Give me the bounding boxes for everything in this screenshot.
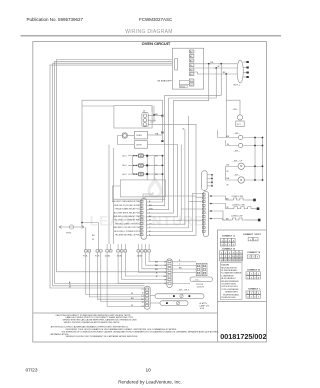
svg-text:DL: DL: [143, 110, 146, 112]
svg-text:W: W: [92, 239, 94, 241]
svg-text:10: 10: [146, 367, 152, 373]
svg-text:12: 12: [224, 260, 227, 262]
svg-text:BB: BB: [155, 265, 158, 267]
svg-text:VERIFIEZ LE BON FONCTIONNEMENT: VERIFIEZ LE BON FONCTIONNEMENT DE L'APPA…: [66, 335, 139, 338]
svg-text:—/W/— BK 4: —/W/— BK 4: [177, 289, 190, 291]
svg-text:P1 A: P1 A: [83, 254, 88, 257]
svg-text:GREEN/VERT: GREEN/VERT: [225, 292, 239, 294]
svg-text:BK-BLACK/NOIR: BK-BLACK/NOIR: [221, 266, 237, 269]
svg-text:R-RED/ROUGE: R-RED/ROUGE: [221, 297, 236, 299]
svg-text:BR-BROWN/BRUN: BR-BROWN/BRUN: [221, 281, 239, 283]
svg-text:B T: B T: [237, 124, 241, 126]
svg-text:WIRING DIAGRAM: WIRING DIAGRAM: [125, 29, 173, 35]
svg-text:LES ERREURS DE CONNEXION PEUVE: LES ERREURS DE CONNEXION PEUVENT CAUSER …: [61, 330, 219, 333]
svg-text:120/12V: 120/12V: [197, 286, 205, 288]
svg-text:TRTZ: TRTZ: [66, 233, 72, 235]
svg-text:—/W/—: —/W/—: [233, 133, 240, 135]
svg-text:10084: 10084: [105, 255, 111, 257]
svg-text:W-WHITE/BLANC: W-WHITE/BLANC: [221, 269, 238, 272]
svg-text:BRN-RED CONV FAN MT P5E: BRN-RED CONV FAN MT P5E: [113, 215, 140, 218]
svg-text:L3: L3: [141, 296, 143, 298]
svg-text:W: W: [142, 302, 144, 304]
svg-text:BL-BLUE/BLEU: BL-BLUE/BLEU: [221, 278, 236, 280]
svg-text:CONNECT 1/2/3 P: CONNECT 1/2/3 P: [243, 234, 262, 236]
svg-text:GRN-YEL DOOR LATCH P5B: GRN-YEL DOOR LATCH P5B: [114, 204, 140, 207]
svg-text:□□/W/□□ 2W: □□/W/□□ 2W: [232, 195, 243, 198]
svg-text:BL 4: BL 4: [123, 165, 128, 167]
svg-text:L3: L3: [164, 283, 166, 285]
svg-text:00181725/002: 00181725/002: [220, 332, 266, 341]
svg-text:13: 13: [228, 260, 231, 262]
svg-text:—/W/—: —/W/—: [232, 109, 239, 111]
svg-text:V-VIOLET/VIOLET: V-VIOLET/VIOLET: [221, 286, 238, 288]
svg-text:M: M: [240, 179, 242, 182]
svg-text:□□/W/□□ 2W: □□/W/□□ 2W: [231, 215, 242, 218]
svg-text:RED-WHT OVEN SENSOR P5A: RED-WHT OVEN SENSOR P5A: [112, 200, 140, 203]
svg-text:CONNECT B: CONNECT B: [247, 269, 260, 271]
svg-text:B: B: [156, 276, 158, 278]
svg-text:CONNECT B: CONNECT B: [222, 249, 235, 251]
svg-text:MOT △: MOT △: [234, 84, 241, 87]
svg-text:LEADVENTURE: LEADVENTURE: [90, 214, 204, 229]
svg-text:W: W: [227, 144, 229, 146]
svg-text:10 W: 10 W: [200, 308, 205, 310]
svg-text:BL 4: BL 4: [123, 156, 128, 158]
svg-text:10085: 10085: [117, 255, 123, 257]
svg-text:WHT-RED LOCK MOTOR P5H: WHT-RED LOCK MOTOR P5H: [113, 227, 140, 229]
svg-text:GY-GREY/GRIS: GY-GREY/GRIS: [221, 284, 236, 286]
svg-text:L3: L3: [141, 289, 143, 291]
svg-text:BK BRACKET: BK BRACKET: [158, 79, 172, 82]
svg-text:W-WHITE/BLANC: W-WHITE/BLANC: [223, 293, 240, 296]
svg-text:—/W/—: —/W/—: [233, 174, 240, 176]
svg-text:YEL-BRN NEUTRAL LN P5K: YEL-BRN NEUTRAL LN P5K: [115, 234, 140, 237]
svg-text:CONNECT L: CONNECT L: [248, 289, 261, 291]
svg-text:VERIFY PROPER OPERATION AFTER: VERIFY PROPER OPERATION AFTER SERVICING …: [64, 321, 121, 324]
svg-text:W: W: [218, 66, 220, 68]
svg-text:15: 15: [236, 260, 239, 262]
svg-text:L3: L3: [141, 306, 143, 308]
svg-text:COLOR:: COLOR:: [221, 265, 229, 267]
svg-text:OVEN CIRCUIT: OVEN CIRCUIT: [142, 41, 171, 46]
svg-text:BL 4: BL 4: [123, 174, 128, 176]
svg-text:W: W: [164, 265, 166, 267]
svg-text:W: W: [142, 292, 144, 294]
svg-text:CONNECT B: CONNECT B: [247, 252, 260, 254]
svg-text:BB: BB: [155, 269, 158, 271]
svg-text:W: W: [227, 207, 229, 209]
svg-text:BK: BK: [92, 235, 95, 237]
svg-text:GRY-BLU OVEN LIGHT P5G: GRY-BLU OVEN LIGHT P5G: [115, 223, 140, 225]
svg-text:VIO-GRN COOL FAN MT P5F: VIO-GRN COOL FAN MT P5F: [114, 219, 140, 222]
svg-text:CONNECT A: CONNECT A: [222, 234, 235, 237]
svg-text:W: W: [164, 279, 166, 281]
svg-text:T-TAN/BEIGE: T-TAN/BEIGE: [221, 274, 234, 277]
svg-text:W: W: [69, 287, 71, 289]
svg-text:—□□□—: —□□□—: [193, 279, 201, 282]
svg-text:W: W: [131, 293, 133, 295]
svg-text:EOC1: EOC1: [180, 87, 185, 89]
svg-text:—/W/—: —/W/—: [233, 151, 240, 153]
svg-text:□□/W/□□□ 3W: □□/W/□□□ 3W: [232, 204, 245, 207]
svg-text:BB: BB: [155, 262, 158, 264]
svg-text:A: A: [183, 128, 185, 131]
svg-text:—/W/— CF: —/W/— CF: [232, 161, 243, 163]
svg-text:FCWM3027ASC: FCWM3027ASC: [139, 17, 173, 22]
svg-text:BK: BK: [131, 298, 134, 300]
svg-text:Rendered by LeadVenture, Inc.: Rendered by LeadVenture, Inc.: [118, 379, 182, 384]
svg-text:W: W: [227, 185, 229, 187]
svg-text:W: W: [131, 305, 133, 307]
svg-text:16: 16: [240, 260, 243, 262]
svg-text:ORN-BLK BAKE RELAY P5C: ORN-BLK BAKE RELAY P5C: [115, 208, 140, 211]
svg-text:B: B: [156, 272, 158, 274]
svg-text:OVEN: OVEN: [136, 135, 142, 137]
svg-text:LIGHT: LIGHT: [136, 145, 143, 147]
svg-text:14: 14: [232, 260, 235, 262]
svg-text:W: W: [227, 171, 229, 173]
svg-text:Y-YELLOW/JAUNE: Y-YELLOW/JAUNE: [221, 288, 239, 291]
svg-text:R-ORANGE/ORANGE: R-ORANGE/ORANGE: [221, 272, 242, 275]
svg-text:L3: L3: [164, 261, 166, 263]
svg-text:BLK-ORN L1 POWER IN P5J: BLK-ORN L1 POWER IN P5J: [114, 231, 139, 233]
svg-text:07/23: 07/23: [26, 367, 38, 373]
svg-text:M: M: [240, 165, 242, 168]
svg-text:BLU-WHT BROIL RELAY P5D: BLU-WHT BROIL RELAY P5D: [114, 211, 140, 214]
svg-text:Publication No. 5995739627: Publication No. 5995739627: [27, 17, 84, 22]
svg-text:11: 11: [221, 260, 224, 262]
